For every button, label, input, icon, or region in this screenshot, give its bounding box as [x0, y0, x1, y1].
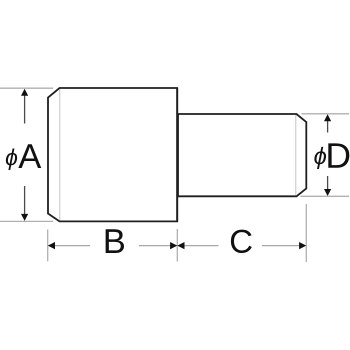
extension line phiD top — [302, 113, 350, 115]
dimension B line right segment — [139, 245, 176, 247]
dimension phiD arrow down — [327, 176, 329, 191]
extension line phiA bottom — [0, 220, 53, 222]
label phiD — [314, 147, 326, 169]
dimension C line right segment — [262, 245, 305, 247]
label phiA — [6, 149, 17, 170]
dimension B line left segment — [49, 245, 90, 247]
extension line C right — [305, 204, 307, 262]
shaft outline — [178, 114, 306, 196]
dimension C arrow left — [177, 242, 184, 249]
extension line phiD bottom — [301, 195, 350, 197]
extension line B/C middle — [176, 229, 178, 262]
shaft chamfer edge line — [295, 115, 297, 196]
dimension phiD arrow up — [327, 119, 329, 133]
dimension phiA arrow up — [24, 94, 26, 124]
body outline — [48, 88, 177, 221]
dimension C line left segment — [179, 245, 219, 247]
extension line B left — [47, 230, 49, 262]
body chamfer edge line — [59, 89, 61, 221]
body right edge over shaft — [176, 88, 178, 221]
label B — [106, 229, 124, 253]
dimension B arrow left — [48, 242, 55, 249]
label C — [231, 230, 252, 253]
extension line phiA top — [0, 87, 53, 89]
dimension B arrow right — [170, 242, 177, 249]
dimension phiA arrow down — [24, 186, 26, 216]
dimension C arrow right — [299, 242, 306, 249]
